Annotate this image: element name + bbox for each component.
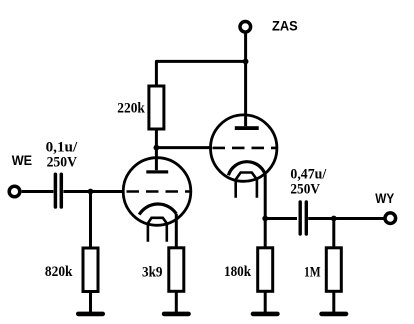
svg-text:220k: 220k (117, 100, 145, 116)
svg-text:0,47u/: 0,47u/ (290, 166, 327, 182)
wire C2 to node E (308, 217, 334, 220)
ground below 820k (76, 312, 105, 317)
label 820k (45, 264, 73, 280)
terminal ZAS (240, 22, 251, 33)
label ZAS (272, 18, 298, 34)
svg-text:ZAS: ZAS (272, 18, 298, 34)
label 1M (304, 265, 321, 281)
triode V2 heater (236, 173, 257, 198)
wire WE to C1 (22, 190, 54, 193)
resistor 820k (83, 248, 98, 292)
svg-text:WE: WE (12, 152, 32, 168)
wire node D to C2 (265, 217, 297, 220)
resistor 180k (258, 248, 273, 291)
value label 250V (290, 182, 320, 198)
node C junction dot (243, 59, 249, 65)
ground below 3k9 (162, 312, 191, 317)
wire 820k to ground (89, 292, 92, 313)
label WY (375, 190, 394, 206)
triode V2 cathode arc (228, 162, 265, 176)
svg-text:0,1u/: 0,1u/ (46, 140, 78, 156)
wire C1 to V1 grid (63, 190, 123, 193)
ground below 180k (251, 312, 280, 317)
triode V2 anode bar (235, 126, 259, 130)
node D junction dot (262, 216, 268, 222)
wire node D down to 180k (264, 219, 267, 248)
triode V1 cathode arc (139, 204, 176, 215)
resistor 220k (149, 86, 164, 129)
node B junction dot (154, 145, 160, 151)
triode V1 heater (148, 218, 167, 242)
terminal WY (385, 213, 396, 224)
wire 220k bottom to node B (155, 129, 158, 148)
triode V2 envelope (211, 115, 277, 181)
svg-text:WY: WY (375, 190, 394, 206)
svg-text:820k: 820k (45, 264, 73, 280)
capacitor C2 plates (300, 202, 306, 234)
label WE (12, 152, 32, 168)
resistor 1M (326, 248, 341, 291)
svg-text:3k9: 3k9 (142, 265, 163, 281)
svg-text:250V: 250V (290, 182, 320, 198)
wire 3k9 to ground (175, 291, 178, 312)
resistor 3k9 (169, 248, 184, 291)
value label 0,47u/ (290, 166, 327, 182)
label 3k9 (142, 265, 163, 281)
wire 180k to ground (264, 291, 267, 312)
triode V1 cathode lead (175, 214, 178, 248)
svg-text:250V: 250V (47, 155, 78, 171)
terminal WE (9, 186, 20, 197)
triode V1 grid (dashed) (127, 190, 192, 193)
wire 1M to ground (332, 291, 335, 312)
triode V2 grid (dashed) (213, 147, 277, 150)
triode V1 anode bar (146, 170, 168, 173)
wire 220k top riser and top rail (156, 61, 245, 86)
label 180k (224, 264, 252, 280)
triode V1 anode lead (155, 148, 158, 171)
triode V1 envelope (123, 158, 191, 226)
ground below 1M (319, 312, 348, 317)
node A junction dot (88, 189, 94, 195)
node E junction dot (331, 216, 337, 222)
svg-text:180k: 180k (224, 264, 252, 280)
svg-text:1M: 1M (304, 265, 321, 281)
wire node A down to 820k (89, 192, 92, 249)
wire node B to V2 grid (156, 146, 212, 149)
wire ZAS down to V2 anode (244, 33, 247, 126)
capacitor C1 plates (55, 174, 61, 207)
label 220k (117, 100, 145, 116)
value label 0,1u/ (46, 140, 78, 156)
wire node E down to 1M (332, 219, 335, 248)
wire node E to WY (334, 217, 384, 220)
triode V2 cathode lead (264, 174, 267, 218)
value label 250V (47, 155, 78, 171)
